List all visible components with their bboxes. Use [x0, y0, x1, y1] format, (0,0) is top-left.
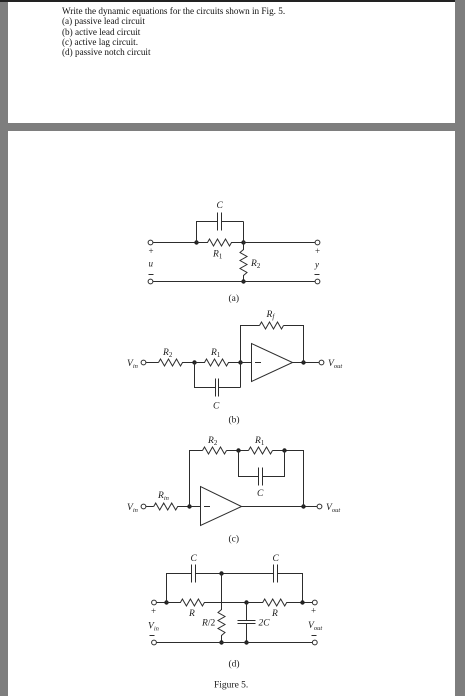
svg-text:R2: R2	[162, 348, 173, 359]
terminal Vout	[317, 504, 322, 509]
wire top rail left	[153, 242, 196, 244]
wire in	[146, 506, 154, 508]
terminal Vout	[319, 360, 324, 365]
wire in	[146, 362, 158, 364]
capacitor C branch wires	[195, 363, 241, 388]
terminal Vin	[141, 360, 146, 365]
resistor R/2 vertical	[218, 574, 225, 643]
terminal u top	[148, 240, 153, 245]
resistor R1	[195, 359, 241, 366]
minus left	[149, 274, 154, 276]
svg-text:Figure 5.: Figure 5.	[214, 681, 248, 691]
capacitor 2C wires	[246, 603, 248, 643]
right gray border	[455, 0, 465, 696]
svg-text:+: +	[149, 246, 154, 256]
node B	[282, 448, 286, 452]
terminal Vin bottom	[152, 640, 157, 645]
svg-text:R1: R1	[254, 436, 265, 447]
svg-text:y: y	[314, 260, 319, 270]
resistor R2	[203, 447, 227, 454]
resistor R1	[197, 239, 244, 246]
problem text	[62, 6, 285, 57]
node bottom R/2	[219, 640, 223, 644]
capacitor C branch wires	[239, 451, 285, 477]
svg-text:R2: R2	[207, 436, 218, 447]
svg-text:2C: 2C	[259, 619, 271, 629]
svg-text:Vin: Vin	[127, 503, 138, 514]
wire output	[242, 506, 317, 508]
resistor R2	[240, 243, 247, 282]
minus right	[315, 274, 320, 276]
svg-text:+: +	[151, 606, 156, 616]
minus input	[255, 362, 261, 364]
terminal Vout bottom	[312, 640, 317, 645]
svg-text:Vin: Vin	[127, 359, 138, 370]
svg-text:(c): (c)	[229, 534, 240, 545]
capacitor C1 plates	[192, 565, 196, 583]
svg-text:u: u	[149, 259, 154, 269]
node right	[300, 600, 304, 604]
capacitor C branch wires	[197, 222, 244, 243]
wire to op-amp	[241, 362, 252, 364]
svg-text:R1: R1	[212, 250, 223, 261]
node bottom	[241, 279, 245, 283]
resistor R left	[167, 599, 247, 606]
top rail wires	[167, 574, 303, 603]
wire bottom rail	[153, 281, 315, 283]
node A	[236, 448, 240, 452]
resistor R2	[159, 359, 195, 366]
capacitor C plates	[259, 468, 263, 486]
op-amp U2	[201, 487, 242, 526]
wire in	[157, 602, 167, 604]
wire bottom rail	[157, 642, 313, 644]
wire top rail right	[244, 242, 315, 244]
feedback rail wires	[190, 451, 304, 507]
left gray border	[0, 2, 8, 696]
svg-text:C: C	[217, 201, 224, 211]
svg-text:Vout: Vout	[308, 621, 322, 632]
node output	[301, 360, 305, 364]
svg-text:+: +	[315, 246, 320, 256]
node 2	[238, 360, 242, 364]
svg-text:Rin: Rin	[157, 491, 169, 502]
capacitor C2 plates	[274, 565, 278, 583]
node top middle	[219, 571, 223, 575]
minus left	[150, 635, 155, 637]
node bottom 2C	[244, 640, 248, 644]
svg-text:+: +	[311, 606, 316, 616]
node 1	[194, 240, 198, 244]
capacitor 2C plates	[238, 621, 256, 624]
terminal y top	[315, 240, 320, 245]
svg-text:Vout: Vout	[326, 503, 340, 514]
svg-text:Rf: Rf	[266, 310, 276, 321]
svg-text:C: C	[257, 489, 264, 499]
svg-text:R: R	[188, 609, 195, 619]
resistor R1	[249, 447, 273, 454]
node left	[164, 600, 168, 604]
minus input	[204, 506, 210, 508]
resistor Rf	[260, 322, 284, 329]
capacitor C plates	[218, 213, 222, 231]
svg-text:C: C	[191, 554, 198, 564]
node 2	[241, 240, 245, 244]
svg-text:C: C	[273, 554, 280, 564]
wire to op-amp	[190, 506, 201, 508]
svg-text:(a): (a)	[229, 293, 240, 304]
terminal Vout top	[312, 600, 317, 605]
svg-text:R/2: R/2	[201, 619, 215, 629]
resistor R right	[247, 599, 313, 606]
svg-text:Vin: Vin	[148, 622, 159, 633]
svg-text:Vout: Vout	[328, 359, 342, 370]
terminal u bottom	[148, 279, 153, 284]
node input	[187, 504, 191, 508]
top dark bar	[0, 0, 455, 2]
feedback wires	[241, 326, 304, 363]
svg-text:R1: R1	[210, 348, 221, 359]
node 2C top	[244, 600, 248, 604]
svg-text:C: C	[213, 402, 220, 412]
op-amp U1	[252, 344, 293, 382]
terminal Vin	[141, 504, 146, 509]
terminal Vin top	[152, 600, 157, 605]
node 1	[192, 360, 196, 364]
terminal y bottom	[315, 279, 320, 284]
resistor Rin	[154, 503, 190, 510]
svg-text:R: R	[271, 609, 278, 619]
node output	[301, 504, 305, 508]
svg-text:R2: R2	[250, 259, 261, 270]
wire output	[293, 362, 319, 364]
svg-text:(d): (d)	[229, 659, 240, 670]
minus right	[312, 635, 317, 637]
gray divider bar	[8, 123, 455, 131]
svg-text:(b): (b)	[229, 415, 240, 426]
capacitor C plates	[216, 379, 219, 397]
